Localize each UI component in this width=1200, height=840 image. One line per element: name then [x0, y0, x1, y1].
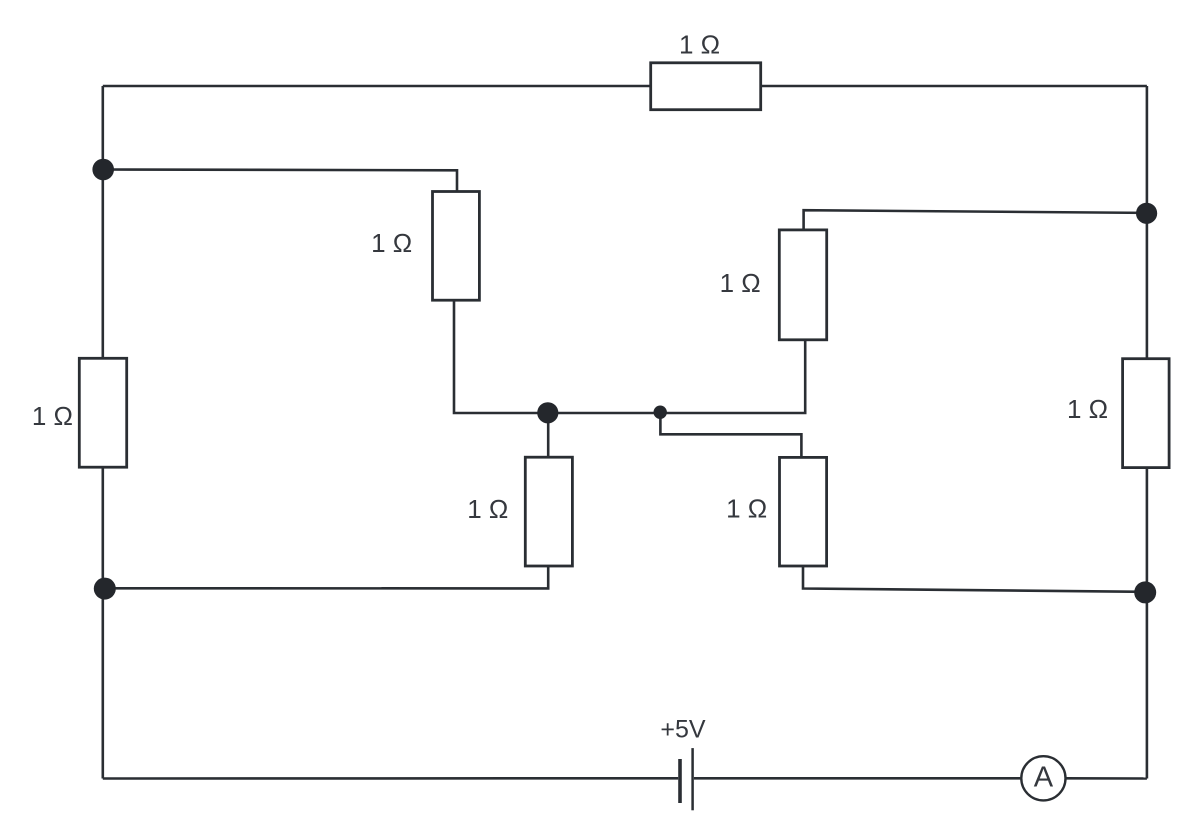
svg-text:1 Ω: 1 Ω — [679, 30, 720, 60]
svg-text:A: A — [1034, 762, 1054, 794]
svg-text:1 Ω: 1 Ω — [1067, 394, 1108, 424]
svg-text:1 Ω: 1 Ω — [467, 494, 508, 524]
svg-text:+5V: +5V — [660, 715, 706, 743]
svg-text:1 Ω: 1 Ω — [32, 401, 73, 431]
svg-text:1 Ω: 1 Ω — [720, 268, 761, 298]
svg-text:1 Ω: 1 Ω — [726, 493, 767, 523]
svg-text:1 Ω: 1 Ω — [371, 228, 412, 258]
